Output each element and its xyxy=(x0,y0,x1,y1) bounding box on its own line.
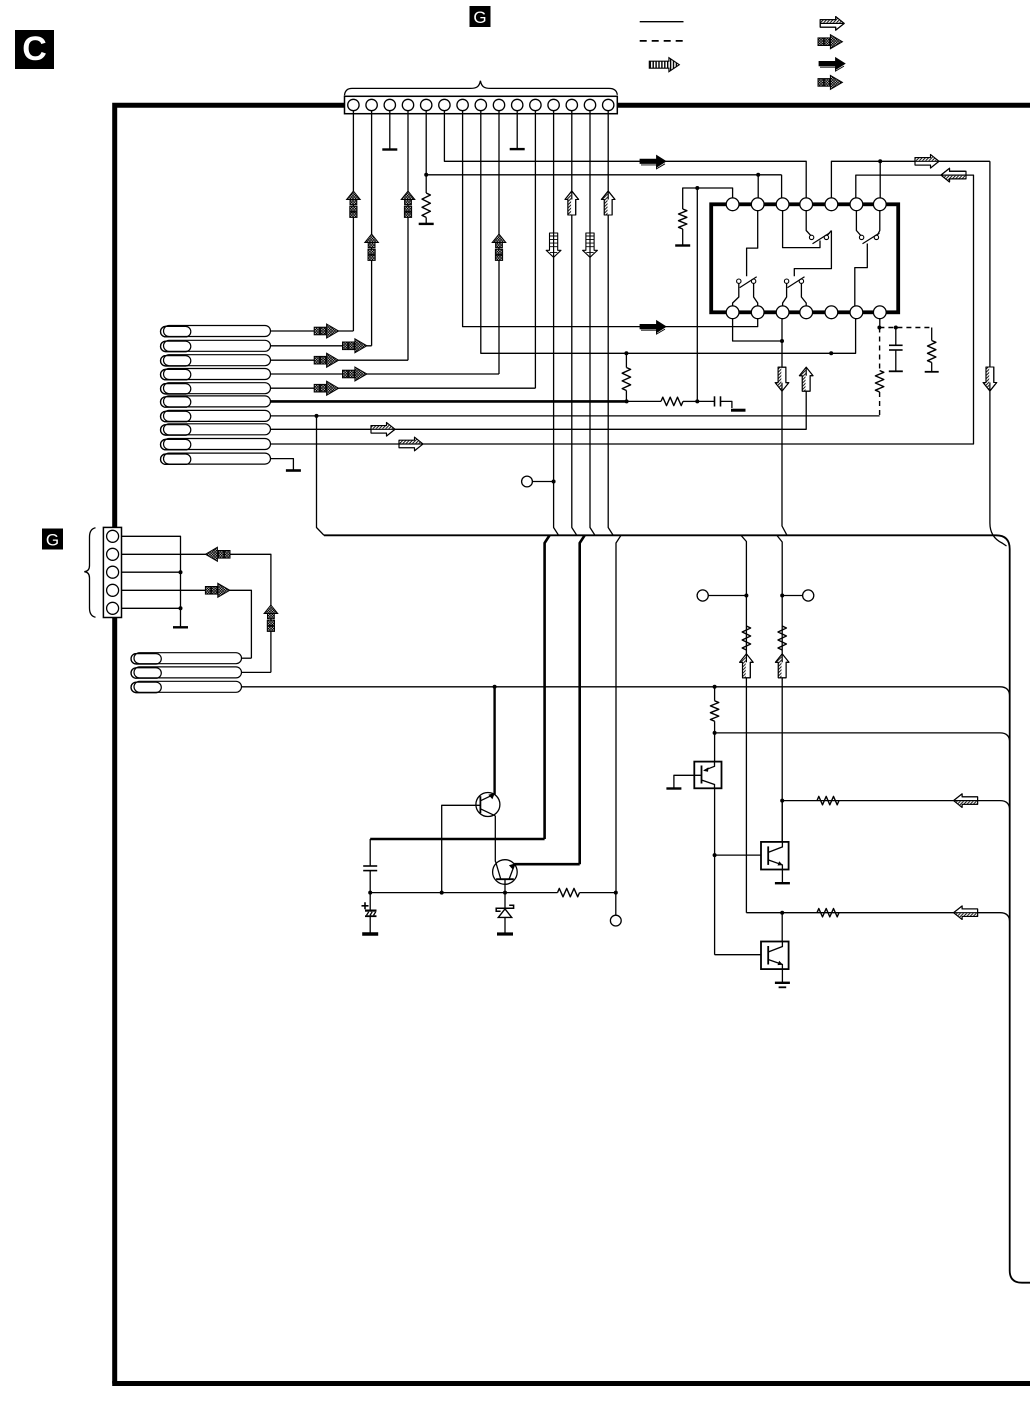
node pin3 junction xyxy=(179,570,183,574)
node Q1 base junction xyxy=(440,891,444,895)
wire pin8 to IC bottom pin6 xyxy=(481,110,856,353)
wire SW-D contact to bottom pad4 xyxy=(801,284,806,306)
flow arrow solid right (y327) xyxy=(640,321,666,333)
wire net y733 to right bus xyxy=(715,733,1010,743)
switch SW-B contact b xyxy=(874,235,878,239)
board border frame top-left segment xyxy=(115,105,345,1383)
terminal circle below (615) xyxy=(615,893,617,916)
connector CN-G pin 1 xyxy=(348,99,359,110)
signal label arrow pin9 xyxy=(492,234,506,260)
connector CN-G pin 10 xyxy=(512,99,523,110)
bar terminal (cap) xyxy=(889,370,903,372)
node y892/pin15 junction xyxy=(614,891,618,895)
capacitor C (dashed block) xyxy=(894,326,898,330)
node row6/cap junction xyxy=(695,399,699,403)
connector CN-G2 pin 1 xyxy=(107,530,119,542)
wire tap 746 from bus xyxy=(741,535,746,912)
flow arrow down (right edge) xyxy=(983,367,997,391)
key switch S4 xyxy=(161,369,271,380)
wire pin5 down xyxy=(425,110,427,193)
IC U1 bottom pad 1 xyxy=(726,306,739,319)
wire xyxy=(625,353,627,367)
IC U1 top pad 2 xyxy=(751,198,764,211)
signal label arrow row2 xyxy=(343,339,367,353)
wire pin6 to IC top pin4 xyxy=(444,110,806,199)
emitter bus y892 xyxy=(370,892,557,894)
wire key row10 to ground xyxy=(271,459,294,470)
wire xyxy=(580,892,616,894)
ground xyxy=(666,787,681,789)
flow arrow left (y800) xyxy=(954,794,978,808)
wire row7 down to bus xyxy=(317,416,325,535)
wire thick pin12 column below bus xyxy=(545,535,550,839)
switch SW-C contact b xyxy=(751,279,755,283)
wire pin2 to keypad row2 xyxy=(271,345,372,347)
key switch S9 xyxy=(161,439,271,450)
wire pin15 down to bus xyxy=(608,110,613,535)
flow arrow down pin12 xyxy=(546,233,561,257)
resistor R (y892) xyxy=(558,888,580,896)
wire CN-G2 pin1 xyxy=(122,536,181,627)
wire pin11 to keypad row5 xyxy=(271,387,536,389)
wire T2 collector from node xyxy=(781,801,783,842)
wire pin1 to keypad row1 xyxy=(271,330,354,332)
flow arrow up pin13 xyxy=(565,191,579,215)
connector CN-G2 pin 3 xyxy=(107,566,119,578)
IC U1 bottom pad 6 xyxy=(850,306,863,319)
signal label arrow pin4 xyxy=(401,191,415,217)
node row6/resistor junction xyxy=(625,399,629,403)
switch SW-C feed wire from top pad2 xyxy=(747,211,758,277)
wire IC top pin7 up xyxy=(879,161,881,198)
bar terminal (res) xyxy=(925,371,939,373)
connector CN-G pin 15 xyxy=(603,99,614,110)
wire IC bottom pad3 column down to bus xyxy=(782,319,787,536)
key switch S10 xyxy=(161,453,271,464)
wire net y912 to right bus xyxy=(746,913,1009,923)
legend: solid line symbol xyxy=(640,21,684,23)
transistor T3 (digital NPN) xyxy=(761,942,789,970)
wire pin1 down xyxy=(352,110,354,331)
wire pin12 down to bus xyxy=(554,110,559,535)
node y188 junction xyxy=(695,186,699,190)
ground xyxy=(775,982,790,984)
connector CN-G pin 2 xyxy=(366,99,377,110)
IC U1 bottom pad 5 xyxy=(825,306,838,319)
wire Q1 base xyxy=(442,805,481,892)
ground xyxy=(510,148,525,150)
wire IC top pin5 to right edge (y161) xyxy=(831,161,990,198)
switch SW-A contact a xyxy=(809,235,813,239)
IC switch-array U1 body xyxy=(711,204,898,312)
terminal circle left xyxy=(697,590,708,601)
terminal circle right xyxy=(803,590,814,601)
IC U1 top pad 1 xyxy=(726,198,739,211)
signal label arrow row5 xyxy=(314,381,338,395)
flow arrow down (IC bottom pad3) xyxy=(775,367,789,391)
key switch S11 xyxy=(131,653,242,664)
connector CN-G pin 6 xyxy=(439,99,450,110)
node y687/resistor junction xyxy=(713,685,717,689)
test point terminal TP1 xyxy=(522,476,533,487)
wire S11 to pin4 net xyxy=(242,657,252,659)
wire CN-G2 pin5 xyxy=(122,607,181,609)
connector CN-G2 pin 2 xyxy=(107,548,119,560)
node pin5 junction xyxy=(179,606,183,610)
ground xyxy=(286,469,301,472)
key switch S12 xyxy=(131,667,242,678)
wire S12 to pin2 net xyxy=(242,671,271,673)
wire pin3 down xyxy=(389,110,391,150)
IC U1 bottom pad 7 xyxy=(873,306,886,319)
connector CN-G pin 12 xyxy=(548,99,559,110)
resistor R (y912) xyxy=(817,909,839,917)
key switch S7 xyxy=(161,410,271,421)
dashed filter block border top xyxy=(879,327,931,329)
resistor R (682) to ground xyxy=(679,209,687,229)
wire pin11 down xyxy=(534,110,536,388)
connector CN-G2 pin 5 xyxy=(107,602,119,614)
key switch S3 xyxy=(161,355,271,366)
wire SW-D contact to bottom pad3 xyxy=(783,284,787,306)
wire Q1 emitter up to y687 (thick) xyxy=(493,687,495,795)
wire SW-B contact to top pad7 xyxy=(877,211,879,236)
connector CN-G pin 7 xyxy=(457,99,468,110)
switch SW-A contact b xyxy=(824,235,828,239)
ground xyxy=(775,882,790,884)
signal label arrow (pin2) xyxy=(205,547,230,561)
resistor R (series row6) xyxy=(661,397,683,405)
node pin8/resistor junction xyxy=(624,351,628,355)
transistor Q1 xyxy=(476,793,500,817)
connector CN-G pin 11 xyxy=(530,99,541,110)
node y687/Q1 collector junction xyxy=(493,685,497,689)
wire pin9 to keypad row4 xyxy=(271,373,500,375)
node terminal junction left xyxy=(744,594,748,598)
flow arrow right row9 xyxy=(399,437,423,451)
node T1/T2 base junction xyxy=(713,853,717,857)
connector label G (top) xyxy=(470,6,491,27)
key switch S6 xyxy=(161,396,271,407)
wire key row8 to IC bottom pin4 xyxy=(271,392,807,430)
resistor R (dashed block right) xyxy=(931,328,933,341)
signal label arrow (pin4) xyxy=(205,583,229,597)
IC U1 bottom pad 4 xyxy=(800,306,813,319)
IC U1 top pad 4 xyxy=(800,198,813,211)
wire xyxy=(721,401,732,408)
resistor on pin5 xyxy=(422,193,430,217)
signal label arrow pin2 xyxy=(365,234,379,260)
wire pin10 down xyxy=(516,110,518,149)
flow arrow down pin14 xyxy=(583,233,598,257)
wire T1 emitter down xyxy=(714,788,716,954)
wire pin2 down xyxy=(371,110,373,346)
wire CN-G2 pin2 xyxy=(122,554,271,672)
flow arrow up (746) xyxy=(740,654,754,678)
legend: striped arrow symbol xyxy=(649,58,679,72)
legend: label-arrow symbol 2 xyxy=(818,75,842,89)
key switch S1 xyxy=(161,326,271,337)
switch SW-A lever xyxy=(813,233,830,244)
svg-text:C: C xyxy=(22,30,47,68)
IC U1 top pad 3 xyxy=(776,198,789,211)
legend: label-arrow symbol 1 xyxy=(818,35,842,49)
wire down to IC top pin3 xyxy=(781,175,783,199)
wire thick pin12 net lower horizontal xyxy=(370,838,544,841)
wire terminal to 782 xyxy=(782,595,802,597)
wire pin5 to IC row (y175) xyxy=(426,174,758,176)
wire xyxy=(683,400,697,402)
switch SW-A feed wire from top pad3 xyxy=(783,211,820,248)
wire xyxy=(625,391,627,402)
flow arrow solid right (y161) xyxy=(640,155,666,167)
connector CN-G pin 3 xyxy=(384,99,395,110)
wire SW-C contact to bottom pad2 xyxy=(754,284,758,306)
node y161/IC top pin7 junction xyxy=(878,159,882,163)
resistor R (746) xyxy=(742,626,750,650)
node Q2/emitter-bus junction xyxy=(503,891,507,895)
wire pin14 down to bus xyxy=(590,110,595,535)
flow arrow up (IC bottom pin4) xyxy=(799,367,813,391)
connector CN-G2 body xyxy=(103,527,121,617)
transistor T2 (digital NPN) xyxy=(761,842,789,870)
wire down to IC top pin2 xyxy=(757,175,759,199)
wire SW-A contact to pad5 column xyxy=(827,231,831,236)
wire terminal to 746 xyxy=(708,595,746,597)
IC U1 top pad 6 xyxy=(850,198,863,211)
wire pin4 down xyxy=(407,110,409,360)
capacitor C electrolytic (369) xyxy=(369,893,371,911)
node jumper/pad3 junction xyxy=(780,339,784,343)
board border frame top-right segment xyxy=(617,103,1030,108)
key switch S2 xyxy=(161,340,271,351)
wire xyxy=(627,400,661,402)
IC U1 bottom pad 2 xyxy=(751,306,764,319)
wire thick key row6 bus xyxy=(271,400,627,403)
ground xyxy=(497,932,513,935)
node 782/y800 junction xyxy=(780,799,784,803)
wire pin9 down xyxy=(498,110,500,374)
flow arrow up pin15 xyxy=(601,191,615,215)
transistor Q2 xyxy=(493,860,518,885)
resistor R (782) xyxy=(778,626,786,650)
wire xyxy=(369,916,371,934)
key switch S5 xyxy=(161,383,271,394)
wire row6 node up to IC pin1 line xyxy=(696,188,698,401)
transistor T1 (digital, PNP) xyxy=(694,762,721,789)
wire top pad4 to SW-A contact xyxy=(806,211,810,236)
wire TP1 to pin12 xyxy=(532,481,553,483)
ground xyxy=(173,626,188,628)
connector CN-G brace xyxy=(345,81,618,96)
switch SW-D feed wire from top pad5 xyxy=(794,231,831,277)
wire xyxy=(504,917,506,934)
legend: dashed line symbol xyxy=(640,40,684,42)
wire T3 emitter to ground xyxy=(781,969,783,983)
wire T2 base xyxy=(715,854,761,856)
resistor R (714) xyxy=(710,701,718,721)
resistor R (626) between pin8 line and row6 xyxy=(622,368,630,391)
dashed filter block border left xyxy=(879,328,881,371)
flow arrow left (IC top pin6) xyxy=(941,168,965,182)
node pin5 junction xyxy=(424,173,428,177)
connector CN-G2 pin 4 xyxy=(107,584,119,596)
flow arrow right row8 xyxy=(371,423,395,437)
connector label G (left) xyxy=(42,529,63,550)
switch SW-C lever xyxy=(740,277,757,288)
ground (row6) xyxy=(731,409,746,412)
connector CN-G pin 8 xyxy=(475,99,486,110)
wire xyxy=(697,400,714,402)
capacitor C (row6 coupling) xyxy=(714,396,716,406)
connector CN-G pin 9 xyxy=(493,99,504,110)
wire IC top pin1 resistor net (y188) xyxy=(683,188,733,209)
ground xyxy=(362,932,378,935)
legend: hatched arrow symbol xyxy=(820,17,844,31)
wire pin7 to IC bottom pin2 xyxy=(463,110,758,327)
wire pin15 column below bus xyxy=(616,535,621,892)
wire T1 base to ground xyxy=(674,775,702,788)
wire thick pin13 column below bus xyxy=(580,535,585,864)
switch SW-B feed wire to bottom pad6 xyxy=(855,244,868,306)
node dashed block top-left xyxy=(877,326,881,330)
connector CN-G pin 5 xyxy=(421,99,432,110)
wire IC bottom pad7 to dashed block xyxy=(879,319,881,328)
wire xyxy=(425,217,427,224)
signal label arrow up (270) xyxy=(264,605,278,631)
signal label arrow row4 xyxy=(343,367,367,381)
ground second bar xyxy=(779,986,787,988)
connector CN-G pin 4 xyxy=(402,99,413,110)
switch SW-D lever xyxy=(788,277,805,288)
wire net y800 to right bus xyxy=(782,801,1010,811)
ground xyxy=(382,148,397,150)
flow arrow up (782) xyxy=(775,654,789,678)
svg-text:G: G xyxy=(473,8,486,27)
switch SW-C contact a xyxy=(737,279,741,283)
wire key row7 to dashed block xyxy=(271,415,880,417)
dashed filter block border left lower xyxy=(879,392,881,416)
IC U1 top pad 7 xyxy=(873,198,886,211)
wire CN-G2 pin4 xyxy=(122,590,252,658)
wire T2 emitter to ground xyxy=(781,870,783,884)
node terminal junction right xyxy=(780,594,784,598)
node pin8/IC bottom pin5 junction xyxy=(829,351,833,355)
node 714/y733 junction xyxy=(713,731,717,735)
wire net y687 (from small connector) to right bus xyxy=(242,687,1010,697)
wire IC top pin6 feed (y175) xyxy=(758,174,781,176)
wire Q2 collector down xyxy=(504,879,506,905)
connector CN-G body xyxy=(345,96,618,113)
flow arrow left (y912) xyxy=(954,906,978,920)
connector CN-G2 brace xyxy=(84,528,95,617)
wire Q1 collector to Q2 xyxy=(494,816,496,862)
node row7/bus junction xyxy=(315,414,319,418)
wire top pad6 to SW-B contact xyxy=(856,211,860,236)
wire T3 collector from node xyxy=(781,913,783,942)
svg-text:G: G xyxy=(46,531,59,550)
wire SW-C contact to bottom pad1 xyxy=(733,284,739,306)
resistor R (y800) xyxy=(817,796,839,804)
node y175/IC top pin2 junction xyxy=(756,173,760,177)
wire xyxy=(714,721,716,761)
ground xyxy=(675,244,690,246)
IC U1 top pad 5 xyxy=(825,198,838,211)
ground xyxy=(419,223,434,225)
connector CN-G pin 14 xyxy=(584,99,595,110)
wire thick pin13 net lower horizontal xyxy=(514,863,580,866)
switch SW-B contact a xyxy=(859,235,863,239)
signal label arrow pin1 xyxy=(347,191,361,217)
wire tap 714 resistor chain xyxy=(714,687,716,701)
section label C xyxy=(15,30,54,69)
wire pin13 down to bus xyxy=(572,110,577,535)
key switch S8 xyxy=(161,424,271,435)
wire xyxy=(682,229,684,246)
wire pin4 to keypad row3 xyxy=(271,359,409,361)
wire to T3 base xyxy=(715,954,761,956)
wire IC bottom pad1 jumper to pad3 column xyxy=(733,319,782,341)
wire IC bottom pad3 column below bus xyxy=(777,536,782,843)
wire CN-G2 pin3 xyxy=(122,571,181,573)
legend: solid arrow symbol xyxy=(819,58,845,70)
key switch S13 xyxy=(131,681,242,692)
switch SW-B lever xyxy=(863,233,880,244)
capacitor C (369) xyxy=(369,839,371,866)
signal label arrow row1 xyxy=(314,324,338,338)
connector CN-G pin 13 xyxy=(566,99,577,110)
signal label arrow row3 xyxy=(314,353,338,367)
resistor R (dashed block left) xyxy=(875,371,883,393)
wire key row9 to IC top pin6 xyxy=(271,175,974,444)
switch SW-D contact a xyxy=(784,279,788,283)
flow arrow right (y161) xyxy=(915,155,939,169)
bus wire y535 to right edge and off page xyxy=(324,535,1030,1282)
wire y161 down right edge with arrow xyxy=(990,161,1007,546)
node cap junction xyxy=(368,891,372,895)
node y912/T3 junction xyxy=(780,911,784,915)
IC U1 bottom pad 3 xyxy=(776,306,789,319)
zener diode ZD1 xyxy=(504,906,506,909)
board border frame bottom segment xyxy=(112,1381,1030,1386)
switch SW-D contact b xyxy=(799,279,803,283)
node pin12 test point junction xyxy=(552,480,556,484)
